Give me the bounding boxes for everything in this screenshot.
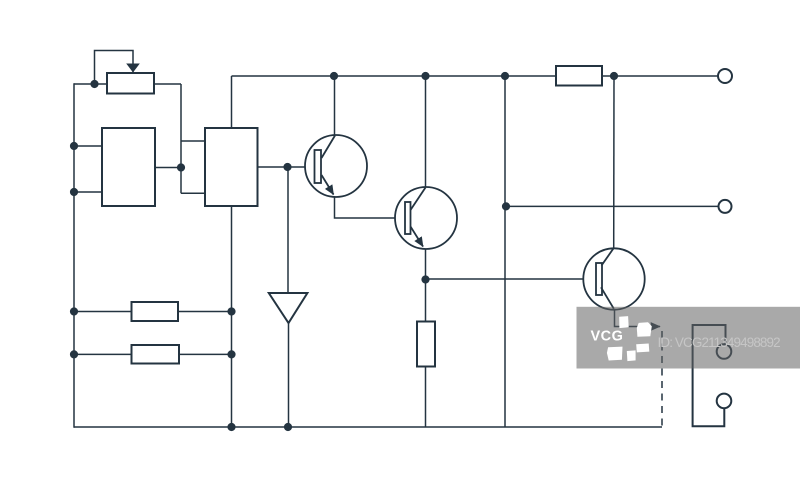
wire dashed link [661, 331, 663, 427]
node left rail in a [70, 142, 78, 150]
wire Q2 collector feed [425, 76, 427, 188]
svg-text:VCG: VCG [591, 329, 624, 345]
wire potentiometer right lead [154, 83, 181, 85]
node top bus 2 [421, 72, 429, 80]
resistor R1 [556, 66, 602, 86]
resistor R3 [132, 345, 180, 364]
transistor Q2 [395, 187, 457, 249]
block U2 [205, 128, 258, 206]
wire Q2 emitter to Q3 base [426, 278, 584, 280]
wire left rail [73, 83, 75, 428]
wire Q3 emitter arrow [615, 309, 661, 327]
wire R4 bottom lead [425, 367, 427, 428]
node A junction [177, 163, 185, 171]
node Q1 base junction [283, 163, 291, 171]
node wiper junction [90, 80, 98, 88]
wire middle rail [504, 76, 506, 427]
wire U2 input a [181, 140, 205, 142]
node top bus 1 [330, 72, 338, 80]
transistor Q3 [583, 248, 644, 309]
node top bus 3 [501, 72, 509, 80]
terminal T2 [719, 200, 732, 213]
wire U1 output [155, 167, 181, 169]
node top bus 4 [610, 72, 618, 80]
resistor R4 [417, 322, 435, 367]
node bottom bus c [284, 423, 292, 431]
terminal T1 [718, 69, 732, 83]
connector J1 bracket [693, 325, 726, 426]
wire buffer A1 input [287, 167, 289, 293]
node bottom bus b [227, 423, 235, 431]
wire R4 top lead [425, 280, 427, 322]
node left rail in b [70, 188, 78, 196]
node output 2 junction [502, 202, 510, 210]
node right rail R3 [227, 350, 235, 358]
wire U1 input b [74, 191, 102, 193]
wire R3 row [74, 353, 232, 355]
svg-text:ID: VCG211349498892: ID: VCG211349498892 [658, 335, 781, 350]
wire right rail below U2 [231, 206, 233, 427]
resistor R2 [132, 302, 179, 321]
wire output 2 [505, 205, 719, 207]
buffer amplifier A1 [269, 293, 308, 323]
wire R2 row [74, 311, 232, 313]
watermark star logo [607, 316, 652, 361]
potentiometer VR1 [107, 73, 154, 94]
wire Q3 collector feed [613, 76, 615, 249]
node left rail R3 [70, 350, 78, 358]
transistor Q1 [305, 135, 367, 197]
wire top bus [232, 75, 719, 77]
wire bottom bus [74, 426, 662, 428]
wire U2 top feed [231, 76, 233, 128]
node left rail R2 [70, 307, 78, 315]
terminal J1 pin 2 [717, 394, 732, 409]
wire Q1 base [258, 166, 306, 168]
wire buffer A1 output [288, 323, 290, 427]
wire potentiometer left lead [74, 83, 107, 85]
node Q2 emitter junction [421, 275, 429, 283]
wire Q1 collector feed [334, 76, 336, 136]
wire U1 input a [74, 145, 102, 147]
terminal J1 pin 1 [717, 344, 732, 359]
wire Q2 emitter out [425, 249, 427, 280]
node right rail R2 [227, 307, 235, 315]
wire potentiometer wiper feedback [95, 51, 134, 85]
wire Q1 emitter to Q2 base [335, 197, 396, 219]
wire mid vertical node A [180, 84, 182, 193]
watermark band [577, 307, 800, 369]
wire U2 input b [181, 192, 205, 194]
block U1 [102, 128, 155, 206]
